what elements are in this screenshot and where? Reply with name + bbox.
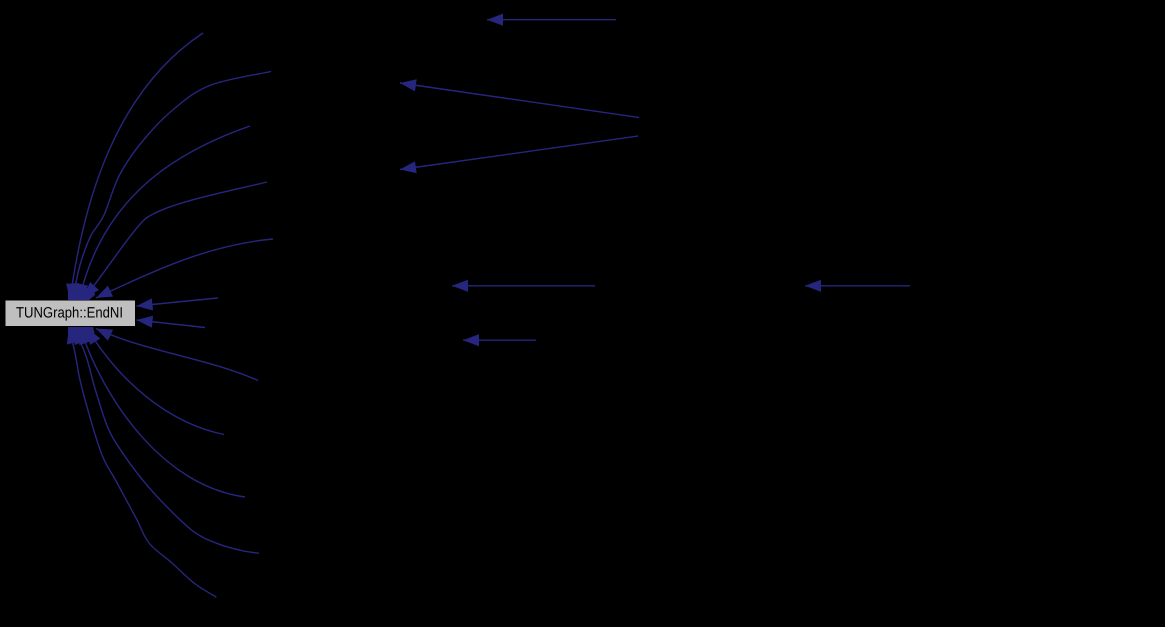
edge from caller 6 xyxy=(96,329,258,381)
edge between hidden callers 6 xyxy=(463,339,536,341)
edge from caller 7 xyxy=(87,328,224,435)
svg-text:TUNGraph::EndNI: TUNGraph::EndNI xyxy=(16,305,123,322)
merged arrowhead cluster at node bottom xyxy=(68,327,95,344)
node TUNGraph::EndNI xyxy=(6,301,136,327)
edge between hidden callers 4 xyxy=(452,285,595,287)
edge from caller 4 xyxy=(84,182,267,298)
edge from caller 9 xyxy=(74,328,259,553)
edge from caller 2 xyxy=(74,72,271,301)
edge from caller 12 (right lower) xyxy=(137,320,206,328)
edge between hidden callers 2 xyxy=(400,83,639,118)
edge between hidden callers 1 xyxy=(487,19,616,21)
edge between hidden callers 3 xyxy=(400,136,638,170)
edge from caller 10 (bottom) xyxy=(69,328,216,598)
edge from caller 3 xyxy=(79,126,250,300)
edge from caller 1 (top) xyxy=(70,33,203,300)
edge from caller 8 xyxy=(80,328,245,497)
edge between hidden callers 5 xyxy=(805,285,910,287)
edge from caller 5 xyxy=(96,239,273,298)
edge from caller 11 (right upper) xyxy=(137,298,219,306)
merged arrowhead cluster at node top xyxy=(68,283,95,300)
